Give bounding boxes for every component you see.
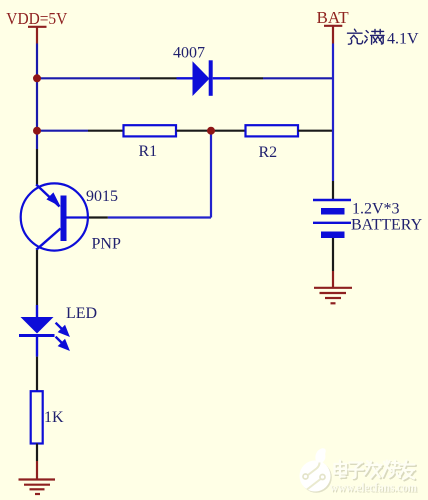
wire R row left <box>37 130 88 132</box>
svg-text:PNP: PNP <box>92 236 121 253</box>
junction dot A <box>33 74 41 82</box>
watermark text dianzifashaoyou <box>336 462 416 481</box>
svg-text:1.2V*3: 1.2V*3 <box>352 201 400 218</box>
svg-text:BATTERY: BATTERY <box>351 217 423 234</box>
svg-text:4.1V: 4.1V <box>387 31 419 48</box>
transistor Q1 emitter line <box>36 185 59 207</box>
svg-text:VDD=5V: VDD=5V <box>6 9 68 28</box>
junction dot C <box>207 127 215 135</box>
pin Q1 base <box>88 216 108 218</box>
battery plate 3 <box>313 222 351 224</box>
pin D1 anode <box>140 77 177 79</box>
svg-text:R2: R2 <box>259 144 278 161</box>
transistor Q1 collector line <box>36 229 60 250</box>
pin R2 right <box>298 130 334 132</box>
LED lead bottom <box>36 337 38 357</box>
diode D1 cathode bar <box>209 60 213 96</box>
svg-text:4007: 4007 <box>173 45 205 62</box>
LED cathode bar <box>19 334 55 337</box>
battery plate 2 <box>321 208 345 215</box>
wire VDD vertical <box>36 44 38 150</box>
diode D1 lead left <box>177 77 194 79</box>
svg-text:1K: 1K <box>44 409 64 426</box>
svg-text:LED: LED <box>66 305 97 322</box>
power bar VDD <box>28 27 47 44</box>
transistor Q1 base lead <box>67 216 88 218</box>
transistor Q1 circle <box>21 183 88 250</box>
svg-text:R1: R1 <box>139 143 158 160</box>
pin battery top <box>332 181 334 199</box>
power bar BAT <box>324 26 342 44</box>
glyph chong <box>348 29 363 44</box>
glyph man <box>365 29 384 44</box>
wire base loop vertical <box>210 131 212 218</box>
LED arrow 1 <box>56 323 68 335</box>
wire base loop horizontal <box>108 216 211 218</box>
pin R1 left <box>88 130 123 132</box>
resistor R3 body 1K <box>31 391 43 443</box>
pin battery bottom <box>332 238 334 271</box>
wire diode row right <box>263 77 334 79</box>
wire diode row left <box>37 77 140 79</box>
pin R2 left <box>213 130 245 132</box>
ground stem left <box>36 461 38 479</box>
svg-text:9015: 9015 <box>86 188 118 205</box>
LED arrow 2 <box>56 337 68 349</box>
wire BAT vertical <box>332 44 334 182</box>
pin Q1 emitter <box>36 149 38 185</box>
ground left <box>19 480 56 495</box>
svg-text:BAT: BAT <box>317 8 350 27</box>
watermark logo elecfans <box>300 448 332 493</box>
LED lead top <box>36 305 38 318</box>
resistor R2 body <box>246 125 299 136</box>
resistor R1 body <box>124 125 177 136</box>
pin R3 bottom <box>36 444 38 462</box>
ground stem right <box>332 271 334 287</box>
junction dot B <box>33 127 41 135</box>
pin R1 right <box>177 130 210 132</box>
diode D1 lead right <box>213 77 230 79</box>
diode D1 triangle <box>193 61 210 96</box>
transistor Q1 base bar <box>61 196 67 242</box>
label charge 4.1V (CJK drawn) <box>348 29 385 44</box>
ground right <box>314 288 352 304</box>
battery plate 1 <box>313 199 351 201</box>
svg-text:www.elecfans.com: www.elecfans.com <box>330 481 418 495</box>
pin R3 top <box>36 357 38 391</box>
pin D1 cathode <box>230 77 263 79</box>
pin Q1 collector <box>36 250 38 305</box>
LED triangle <box>21 317 54 334</box>
transistor Q1 emitter arrow <box>46 192 60 206</box>
battery plate 4 <box>321 232 345 239</box>
